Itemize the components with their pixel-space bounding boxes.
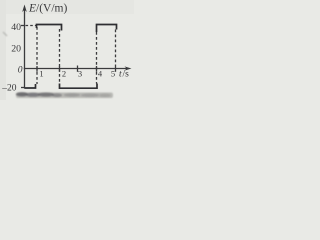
y-axis — [24, 8, 26, 89]
svg-text:5: 5 — [111, 69, 115, 79]
svg-text:40: 40 — [11, 22, 21, 33]
dashed gridline E=40 — [26, 25, 37, 27]
svg-text:3: 3 — [78, 69, 82, 79]
x-axis — [24, 68, 129, 70]
svg-text:E/(V/m): E/(V/m) — [28, 3, 68, 15]
tick -20 — [21, 87, 25, 89]
svg-text:/s: /s — [123, 70, 130, 80]
dashed vertical t=4 — [96, 32, 98, 84]
waveform pulse E=40 4&lt;t&lt;5 — [97, 25, 117, 33]
waveform segment E=-20 2&lt;t&lt;4 — [60, 84, 98, 89]
svg-text:–20: –20 — [1, 84, 17, 94]
tick t=5 — [115, 66, 117, 72]
svg-text:0: 0 — [18, 66, 23, 76]
tick 40 — [21, 25, 25, 27]
tick t=3 — [77, 66, 79, 72]
tick t=1 — [36, 66, 38, 72]
waveform segment E=-20 0&lt;t&lt;1 — [25, 84, 36, 88]
bottom scan smudge band light part — [16, 93, 113, 99]
tick t=4 — [96, 66, 98, 72]
bottom scan smudge band dark clumps — [16, 92, 111, 97]
scan background — [0, 0, 134, 100]
waveform pulse E=40 1&lt;t&lt;2 — [37, 25, 62, 31]
tick t=2 — [59, 66, 61, 72]
y-axis arrowhead — [22, 5, 27, 13]
dashed vertical t=1 — [36, 27, 38, 84]
x-axis arrowhead — [125, 66, 132, 70]
svg-text:1: 1 — [39, 69, 43, 79]
svg-text:2: 2 — [62, 69, 66, 79]
dashed vertical t=5 — [115, 30, 117, 67]
dashed vertical t=2 — [59, 29, 61, 84]
svg-text:20: 20 — [11, 43, 21, 54]
faint left-margin smudge — [3, 32, 7, 36]
